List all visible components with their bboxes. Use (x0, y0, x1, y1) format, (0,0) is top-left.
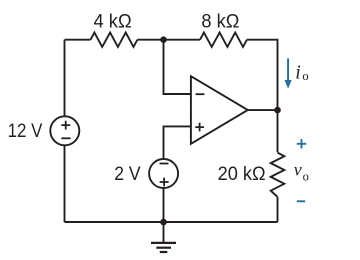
wire (164, 40, 191, 94)
wire (64, 145, 66, 222)
source V2 2 V (149, 159, 178, 188)
source V1 12 V (50, 116, 79, 145)
wire (64, 40, 66, 117)
wire (65, 221, 278, 223)
node C (bottom junction) (160, 219, 167, 226)
node B (op-amp output) (274, 107, 281, 114)
op-amp U1 (191, 76, 248, 144)
wire (164, 126, 191, 159)
svg-text:4 kΩ: 4 kΩ (94, 11, 132, 33)
ground (151, 243, 176, 252)
svg-text:8 kΩ: 8 kΩ (201, 11, 239, 33)
svg-text:12 V: 12 V (8, 120, 43, 142)
source V1 polarity - (61, 137, 70, 139)
source V2 polarity + (160, 178, 169, 187)
wire (247, 40, 278, 153)
svg-text:2 V: 2 V (114, 163, 140, 185)
source V2 polarity - (160, 163, 169, 165)
wire (65, 39, 91, 41)
current arrow io (285, 58, 292, 88)
wire (248, 109, 278, 111)
svg-text:20 kΩ: 20 kΩ (218, 163, 266, 185)
svg-text:io: io (295, 62, 308, 84)
op-amp inverting input sign (196, 93, 205, 95)
node A (top junction) (160, 36, 167, 43)
resistor 4 kΩ (91, 33, 138, 47)
wire (163, 188, 165, 222)
polarity + (vo) (297, 139, 307, 148)
wire (277, 197, 279, 222)
wire (163, 222, 165, 242)
resistor 8 kΩ (200, 33, 247, 47)
op-amp noninverting input sign (195, 123, 204, 132)
resistor 20 kΩ (271, 153, 285, 197)
svg-text:vo: vo (294, 160, 309, 184)
polarity - (vo) (297, 200, 305, 202)
wire (137, 39, 200, 41)
source V1 polarity + (61, 121, 70, 130)
